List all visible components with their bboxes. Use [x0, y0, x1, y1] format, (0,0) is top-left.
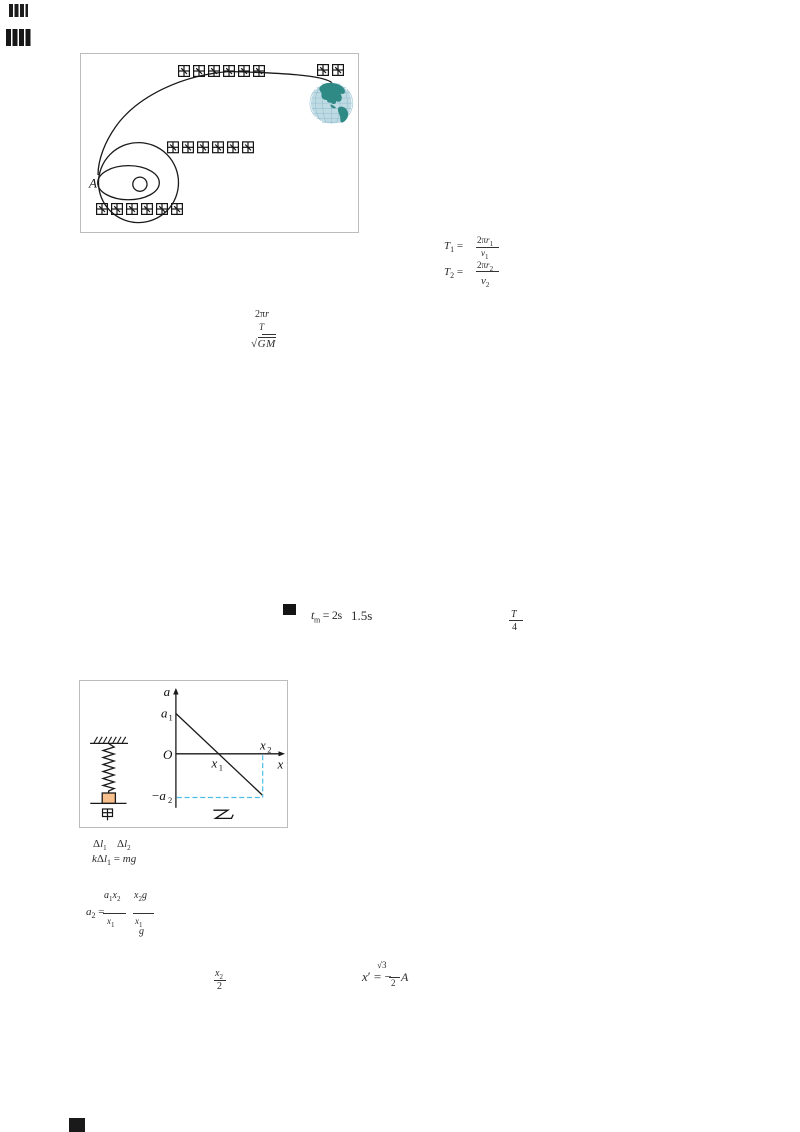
circular orbit around Mars	[99, 143, 179, 223]
ceiling line	[90, 742, 128, 744]
Mars small circle	[133, 177, 147, 191]
formula cluster C6 frac1 denominator	[107, 916, 115, 929]
formula cluster C1 row2 bar	[476, 271, 499, 272]
formula cluster C8 bar	[389, 977, 400, 978]
svg-text:1: 1	[169, 713, 173, 723]
formula cluster C2 numerator	[255, 309, 269, 320]
svg-text:O: O	[163, 747, 173, 762]
dashed cyan lines	[177, 755, 263, 797]
svg-text:a: a	[164, 684, 171, 699]
formula cluster C5a part2	[117, 838, 131, 852]
figure 1 background	[81, 54, 359, 233]
formula cluster C1 row2 denominator	[481, 275, 489, 289]
figure 2 background	[80, 681, 288, 828]
formula cluster C8 main	[362, 969, 392, 985]
svg-text:−a: −a	[152, 788, 166, 803]
North America	[319, 83, 345, 104]
svg-text:x: x	[277, 757, 284, 772]
y axis	[175, 691, 177, 808]
Earth globe	[310, 83, 353, 124]
formula cluster C1 row1 bar	[476, 247, 499, 248]
x axis	[176, 753, 281, 755]
formula cluster C1 row1 numerator	[477, 235, 493, 248]
transfer orbit curve	[98, 72, 332, 176]
svg-text:1: 1	[219, 763, 223, 773]
formula cluster C2 mid bar	[262, 334, 276, 335]
formula cluster C1 row2 prefix	[444, 266, 463, 280]
formula cluster C6 frac1 numerator	[104, 890, 120, 903]
svg-text:a: a	[161, 706, 168, 721]
formula cluster C4 denominator	[512, 622, 517, 633]
formula cluster C8 denominator	[391, 978, 396, 988]
landing prep orbit ellipse	[98, 166, 160, 200]
formula cluster C6 frac2 denominator	[135, 916, 143, 929]
svg-text:2: 2	[267, 745, 271, 755]
ground line	[90, 802, 126, 804]
formula cluster C5b	[92, 853, 136, 867]
top-left mark 1	[9, 4, 28, 17]
Central America	[330, 105, 336, 109]
ceiling hatching	[94, 737, 126, 743]
formula cluster C2 denominator	[251, 338, 276, 350]
label: transfer orbit text	[179, 66, 265, 77]
formula cluster C3 part 1	[311, 608, 342, 624]
formula cluster C6 tail	[139, 926, 144, 937]
formula cluster C8 tail A	[401, 970, 408, 985]
formula cluster C6 prefix	[86, 906, 104, 920]
mark M1	[283, 604, 296, 615]
a-x line	[176, 714, 263, 796]
formula cluster C2 upper small	[259, 322, 264, 332]
formula cluster C7 denominator	[217, 981, 222, 992]
spring	[103, 743, 114, 793]
svg-text:A: A	[88, 176, 97, 191]
label jia	[103, 809, 113, 820]
label: Mars circular orbit text	[168, 142, 254, 153]
formula cluster C4 bar	[509, 620, 523, 621]
formula cluster C7 numerator	[215, 968, 223, 981]
South America	[338, 107, 348, 123]
formula cluster C1 row2 numerator	[477, 260, 493, 273]
formula cluster C6 frac1 bar	[103, 913, 126, 914]
label: landing prep orbit text	[97, 204, 183, 215]
formula cluster C8 superscript	[377, 960, 386, 970]
figure 2: spring and a-x graph	[79, 680, 288, 828]
formula cluster C1 row1 denominator	[481, 248, 489, 261]
formula cluster C4 numerator	[511, 609, 517, 620]
top-left mark 2	[6, 29, 31, 46]
svg-text:2: 2	[168, 795, 172, 805]
svg-text:x: x	[259, 738, 266, 753]
formula cluster C6 frac2 numerator	[134, 890, 147, 903]
block	[102, 793, 115, 803]
formula cluster C3 part 2	[351, 608, 372, 624]
formula cluster C7 bar	[214, 980, 226, 981]
label yi	[213, 810, 233, 818]
label: Earth text	[318, 65, 344, 76]
figure 1: Mars orbit diagram	[80, 53, 359, 233]
bottom-left mark	[69, 1118, 85, 1132]
svg-text:x: x	[211, 756, 218, 771]
formula cluster C5a part1	[93, 838, 107, 852]
formula cluster C1 row1 prefix	[444, 240, 463, 254]
formula cluster C6 frac2 bar	[133, 913, 154, 914]
